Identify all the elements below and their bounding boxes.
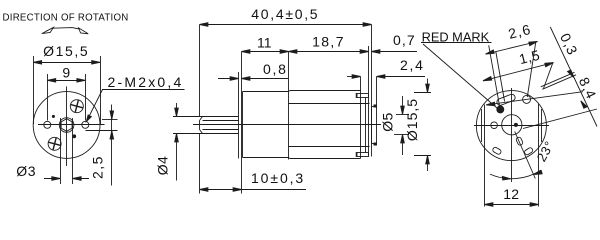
can flat silhouette lines xyxy=(289,104,370,147)
M2 hole right xyxy=(82,121,89,128)
front view outer circle Ø15.5 xyxy=(33,92,100,159)
top vent slot xyxy=(496,93,516,106)
dimension 10±0,3 xyxy=(200,170,307,191)
dimension 0,3 / 8,4 steep line xyxy=(550,27,597,127)
end cap xyxy=(366,25,372,157)
svg-text:2-M2x0,4: 2-M2x0,4 xyxy=(108,74,184,90)
extension line to slot xyxy=(496,52,505,102)
23 degree line xyxy=(515,132,536,179)
gearbox body xyxy=(243,92,289,158)
dimension 1,5 xyxy=(483,47,554,81)
svg-text:Ø5: Ø5 xyxy=(380,112,396,131)
dimension 2,6 xyxy=(486,21,538,54)
terminal edge lines 0,3 xyxy=(541,72,576,89)
hole left xyxy=(491,122,498,129)
bearing boss on end cap xyxy=(372,105,378,146)
small pin dot lower-right xyxy=(73,135,76,138)
red mark dot xyxy=(497,106,504,113)
dimension 0,8 xyxy=(218,61,289,80)
bottom vent slot left xyxy=(492,147,502,156)
dimension 9 xyxy=(47,65,85,121)
phillips screw bottom-left xyxy=(48,137,61,150)
shaft center dot xyxy=(514,123,517,126)
svg-text:DIRECTION OF ROTATION: DIRECTION OF ROTATION xyxy=(3,13,129,24)
gearbox/can junction and 11 extension xyxy=(288,52,290,160)
bearing boss circle xyxy=(502,115,522,135)
label RED MARK with leader xyxy=(421,29,497,108)
dimension Ø15,5 side xyxy=(404,79,431,172)
horizontal centerline xyxy=(193,124,381,126)
hole axis diagonal with arrow xyxy=(486,92,583,106)
svg-text:12: 12 xyxy=(503,186,519,202)
svg-text:Ø15,5: Ø15,5 xyxy=(404,98,420,141)
center shaft boss circle xyxy=(59,118,74,133)
horizontal centerline xyxy=(38,124,105,126)
extension line to red mark xyxy=(489,45,500,107)
vertical centerline xyxy=(511,88,513,182)
text 23° xyxy=(534,138,557,164)
svg-text:9: 9 xyxy=(62,65,70,81)
shaft outline Ø4 xyxy=(173,117,239,134)
svg-text:Ø15,5: Ø15,5 xyxy=(43,43,89,59)
phillips screw top-right xyxy=(70,100,83,113)
bottom vent slot right xyxy=(524,147,534,156)
dimension 12 xyxy=(485,147,539,207)
text 8,4 xyxy=(576,75,600,102)
can flat chords left xyxy=(482,105,485,147)
23 degree arc with arrows xyxy=(490,170,542,180)
small pin dot upper-left xyxy=(52,115,54,117)
svg-text:Ø3: Ø3 xyxy=(16,163,36,179)
dimension 2,5 xyxy=(86,105,118,186)
dimension 40,4±0,5 xyxy=(200,6,372,193)
dimension 2,4 xyxy=(347,57,425,105)
back view outer circle xyxy=(476,91,546,161)
svg-text:2,5: 2,5 xyxy=(90,155,106,179)
extension line 1,5 right xyxy=(544,63,553,89)
center hexagon hole xyxy=(61,119,72,132)
svg-text:0,7: 0,7 xyxy=(393,32,416,48)
dimension Ø5 xyxy=(380,96,410,155)
hole top-right xyxy=(523,95,531,103)
text 0,3 xyxy=(557,31,581,58)
boss tangent diagonal xyxy=(523,109,597,129)
gearbox front plate xyxy=(239,52,242,194)
rotation direction curved arrow xyxy=(42,27,88,34)
dimension 11 xyxy=(242,34,289,53)
motor can outline xyxy=(289,91,361,159)
extension line to top-right hole xyxy=(527,41,536,97)
dimension Ø3 xyxy=(16,118,89,184)
label DIRECTION OF ROTATION xyxy=(3,13,129,24)
svg-text:40,4±0,5: 40,4±0,5 xyxy=(251,6,319,22)
vertical centerline xyxy=(66,87,68,167)
dimension 18,7 xyxy=(289,33,369,53)
svg-text:11: 11 xyxy=(257,34,272,50)
terminal slot on 23deg axis xyxy=(516,137,524,146)
M2 hole left xyxy=(44,121,51,128)
svg-text:0,8: 0,8 xyxy=(263,61,288,77)
terminal bottom xyxy=(356,152,368,157)
svg-text:10±0,3: 10±0,3 xyxy=(251,170,305,186)
dimension 0,7 xyxy=(372,32,418,53)
dimension Ø15,5 xyxy=(33,43,100,124)
horizontal centerline xyxy=(474,125,549,127)
can flat chords right xyxy=(539,104,542,147)
svg-text:Ø4: Ø4 xyxy=(154,156,170,175)
label 2-M2x0,4 with leader xyxy=(86,74,184,122)
terminal top xyxy=(356,93,368,98)
dimension Ø4 xyxy=(154,103,178,181)
svg-text:2,4: 2,4 xyxy=(400,57,425,73)
svg-text:18,7: 18,7 xyxy=(312,33,345,49)
